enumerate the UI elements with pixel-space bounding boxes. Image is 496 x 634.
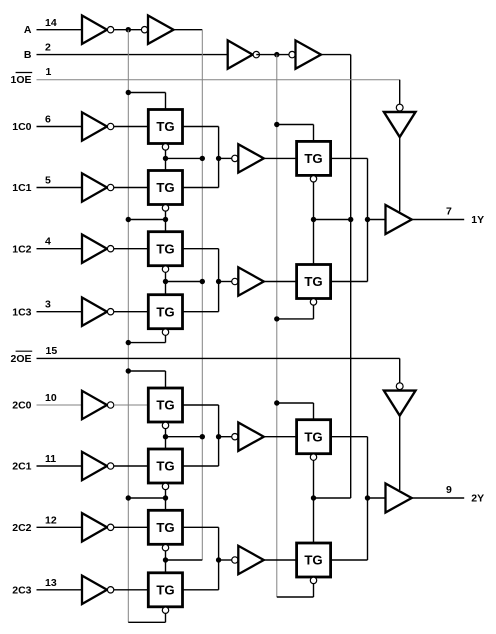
svg-text:13: 13 bbox=[45, 577, 57, 589]
wire 1OE horizontal bbox=[37, 79, 400, 81]
wire A buffer out bbox=[174, 29, 203, 31]
svg-text:5: 5 bbox=[45, 175, 51, 187]
wire 1C3 input bbox=[37, 311, 83, 313]
input B label (pin 2) bbox=[24, 42, 51, 62]
transmission gate TG 1C3 bbox=[148, 295, 182, 329]
node stage2 join 2 bbox=[365, 495, 370, 500]
svg-text:6: 6 bbox=[45, 114, 51, 126]
node B-bar tap 1 lower bbox=[274, 316, 279, 321]
buffer U2Y (output 2Y) bbox=[386, 484, 412, 513]
svg-text:15: 15 bbox=[46, 345, 58, 357]
wire 2C3 inverter to TG bbox=[114, 589, 149, 591]
input 2C1 label (pin 11) bbox=[12, 453, 56, 473]
svg-text:TG: TG bbox=[156, 583, 174, 598]
output 2Y label (pin 9) bbox=[446, 484, 484, 505]
wire control row 1 m01 bbox=[166, 157, 203, 159]
node TG 1C1 bubble junction bbox=[163, 217, 168, 222]
transmission gate TG 2C2 bbox=[148, 510, 182, 544]
svg-text:7: 7 bbox=[446, 206, 452, 218]
wire inverter 1M1 to TG bbox=[265, 157, 297, 159]
wire TG 1C0 bubble to TG 1C1 top bbox=[165, 150, 167, 170]
inverter U2C2 (2C2 input) bbox=[82, 513, 114, 541]
wire control row 1 ctl to B bbox=[314, 219, 351, 221]
svg-text:TG: TG bbox=[304, 553, 322, 568]
node stage1 join 1 m23 bbox=[216, 279, 221, 284]
svg-text:TG: TG bbox=[156, 241, 174, 256]
wire output 2Y bbox=[412, 497, 465, 499]
inverter U1M2 (stage2 1 lower) bbox=[232, 267, 264, 295]
wire A-bar vertical bus bbox=[127, 30, 129, 623]
input 2OE label (pin 15) bbox=[10, 345, 57, 365]
svg-text:B: B bbox=[24, 49, 32, 61]
svg-text:14: 14 bbox=[45, 17, 57, 29]
transmission gate TG 2C0 bbox=[148, 388, 182, 422]
svg-text:3: 3 bbox=[45, 299, 51, 311]
node A-bar tap 2 ctl bbox=[126, 495, 131, 500]
transmission gate TG 2lower stage2 bbox=[297, 543, 331, 577]
wire B vertical bus bbox=[350, 55, 352, 498]
node TG 1C0 bubble junction bbox=[163, 156, 168, 161]
wire 2C2 inverter to TG bbox=[114, 526, 149, 528]
node B tap 1 ctl bbox=[348, 217, 353, 222]
input 2C3 label (pin 13) bbox=[12, 577, 57, 597]
inverter U1A (A input) bbox=[82, 16, 114, 44]
wire join to inverter 2 m01 bbox=[219, 436, 232, 438]
wire TG 2C3 output bbox=[183, 560, 219, 590]
wire join to inverter 1 m01 bbox=[219, 157, 232, 159]
wire 1C2 input bbox=[37, 248, 83, 250]
wire B-bar vertical bus bbox=[276, 55, 278, 597]
transmission gate TG 2C3 bbox=[148, 573, 182, 607]
bubble below TG 1C1 bbox=[162, 205, 168, 211]
svg-text:2C3: 2C3 bbox=[12, 584, 31, 596]
wire TG 2C1 bubble to TG 2C2 top bbox=[165, 490, 167, 511]
wire buffer 2Y input bbox=[368, 497, 386, 499]
input 2C2 label (pin 12) bbox=[12, 514, 57, 534]
transmission gate TG 1upper stage2 bbox=[297, 141, 331, 175]
wire TG 2lower bubble to B-bar bbox=[277, 584, 314, 597]
wire TG 2upper bubble to TG 2lower top bbox=[313, 461, 315, 544]
wire 2C2 input bbox=[37, 526, 83, 528]
svg-text:2C1: 2C1 bbox=[12, 461, 31, 473]
svg-text:1OE: 1OE bbox=[10, 74, 31, 86]
wire join to inverter 1 m23 bbox=[219, 281, 232, 283]
svg-text:4: 4 bbox=[45, 236, 51, 248]
wire TG 1C1 bubble to TG 1C2 top bbox=[165, 211, 167, 231]
wire B-bar to TG 2upper top bbox=[277, 403, 314, 420]
transmission gate TG 1C2 bbox=[148, 232, 182, 266]
svg-text:9: 9 bbox=[446, 484, 452, 496]
node TG 2C2 bubble junction bbox=[163, 557, 168, 562]
transmission gate TG 2C1 bbox=[148, 449, 182, 483]
node B-bar tap 2 bbox=[274, 400, 279, 405]
node A-bar tap 2 top bbox=[126, 368, 131, 373]
bubble below TG 2C1 bbox=[162, 483, 168, 489]
wire 1C1 inverter to TG bbox=[114, 187, 149, 189]
wire TG 2C2 output bbox=[183, 527, 219, 560]
wire A input bbox=[37, 29, 83, 31]
node A-bar tap 1 top bbox=[126, 90, 131, 95]
input A label (pin 14) bbox=[24, 17, 57, 36]
wire enable to output buffer 1Y bbox=[399, 137, 401, 212]
inverter U2A (B input) bbox=[228, 40, 260, 68]
wire B buffer out bbox=[321, 54, 351, 56]
node B-bar junction bbox=[274, 52, 279, 57]
svg-text:TG: TG bbox=[156, 459, 174, 474]
wire TG 2C3 bubble down bbox=[128, 614, 165, 623]
inverter U1M1 (stage2 1 upper) bbox=[232, 144, 264, 172]
wire TG 1C0 output bbox=[183, 127, 219, 159]
input 1C0 label (pin 6) bbox=[12, 114, 51, 134]
node A-bar tap 1 bottom bbox=[126, 340, 131, 345]
svg-text:TG: TG bbox=[156, 520, 174, 535]
wire TG 2lower stage2 output bbox=[331, 498, 368, 560]
node TG 1upper bubble junction bbox=[311, 217, 316, 222]
inverter U2E (enable, output-enable 2OE) bbox=[384, 383, 416, 416]
input 1OE label (pin 1) bbox=[10, 66, 51, 86]
bubble below TG 2C3 bbox=[162, 607, 168, 613]
svg-text:2OE: 2OE bbox=[10, 353, 31, 365]
svg-text:TG: TG bbox=[156, 180, 174, 195]
wire 2C3 input bbox=[37, 589, 83, 591]
svg-text:1: 1 bbox=[46, 66, 52, 78]
buffer U1B (A true) bbox=[141, 16, 173, 44]
bubble below TG 1C0 bbox=[162, 144, 168, 150]
wire A to buffer bbox=[114, 29, 141, 31]
bubble below TG 2upper stage2 bbox=[310, 454, 316, 460]
node A tap 1 m23 bbox=[200, 279, 205, 284]
inverter U2M1 (stage2 2 upper) bbox=[232, 423, 264, 451]
transmission gate TG 2upper stage2 bbox=[297, 420, 331, 454]
wire control row 1 left ctl bbox=[128, 219, 165, 221]
wire 1C2 inverter to TG bbox=[114, 248, 149, 250]
node A-bar junction bbox=[126, 27, 131, 32]
wire TG 1C2 output bbox=[183, 249, 219, 282]
node stage1 join 2 m23 bbox=[216, 557, 221, 562]
input 1C2 label (pin 4) bbox=[12, 236, 51, 256]
svg-text:1Y: 1Y bbox=[471, 214, 484, 226]
wire TG 1lower bubble to B-bar bbox=[277, 305, 314, 319]
buffer U2B (B true) bbox=[289, 40, 321, 68]
wire 2OE horizontal bbox=[37, 357, 400, 359]
wire TG 2C0 output bbox=[183, 405, 219, 437]
wire inverter 1M2 to TG bbox=[265, 281, 297, 283]
inverter U1C1 (1C1 input) bbox=[82, 173, 114, 201]
wire enable to output buffer 2Y bbox=[399, 416, 401, 490]
input 2C0 label (pin 10) bbox=[12, 392, 57, 412]
transmission gate TG 1lower stage2 bbox=[297, 265, 331, 299]
inverter U2M2 (stage2 2 lower) bbox=[232, 546, 264, 574]
wire buffer 1Y input bbox=[368, 219, 386, 221]
svg-text:TG: TG bbox=[156, 119, 174, 134]
svg-text:TG: TG bbox=[304, 274, 322, 289]
inverter U2C0 (2C0 input) bbox=[82, 391, 114, 419]
svg-text:TG: TG bbox=[304, 151, 322, 166]
wire TG 1C1 output bbox=[183, 158, 219, 187]
wire join to inverter 2 m23 bbox=[219, 559, 232, 561]
inverter U1E (enable, output-enable 1OE) bbox=[384, 104, 416, 137]
bubble below TG 1upper stage2 bbox=[310, 176, 316, 182]
svg-text:1C1: 1C1 bbox=[12, 182, 31, 194]
wire TG 1upper stage2 output bbox=[331, 158, 368, 219]
wire TG 2upper stage2 output bbox=[331, 437, 368, 498]
wire B-bar to TG 1upper top bbox=[277, 125, 314, 142]
svg-text:1C3: 1C3 bbox=[12, 306, 31, 318]
svg-text:TG: TG bbox=[156, 304, 174, 319]
wire inverter 2M1 to TG bbox=[265, 436, 297, 438]
wire TG 1C2 bubble to TG 1C3 top bbox=[165, 273, 167, 295]
svg-text:2C0: 2C0 bbox=[12, 400, 31, 412]
node TG 1C2 bubble junction bbox=[163, 279, 168, 284]
wire control row 2 left ctl bbox=[128, 497, 165, 499]
node TG 2upper bubble junction bbox=[311, 495, 316, 500]
node A tap 1 m01 bbox=[200, 156, 205, 161]
wire TG 1upper bubble to TG 1lower top bbox=[313, 182, 315, 264]
svg-text:2: 2 bbox=[45, 42, 51, 54]
wire TG 1C3 output bbox=[183, 282, 219, 312]
inverter U1C0 (1C0 input) bbox=[82, 112, 114, 140]
svg-text:1C0: 1C0 bbox=[12, 121, 31, 133]
svg-text:11: 11 bbox=[45, 453, 56, 465]
bubble below TG 2lower stage2 bbox=[310, 577, 316, 583]
svg-text:TG: TG bbox=[156, 398, 174, 413]
wire A-bar to TG 1C0 top bbox=[128, 93, 165, 110]
node TG 2C0 bubble junction bbox=[163, 434, 168, 439]
wire B to buffer bbox=[256, 54, 289, 56]
wire 1C0 inverter to TG bbox=[114, 126, 149, 128]
bubble below TG 2C0 bbox=[162, 422, 168, 428]
inverter U2C3 (2C3 input) bbox=[82, 576, 114, 604]
wire 1OE to enable inverter bbox=[399, 80, 401, 104]
wire inverter 2M2 to TG bbox=[265, 559, 297, 561]
svg-text:10: 10 bbox=[45, 392, 57, 404]
wire control row 2 ctl to B bbox=[314, 497, 351, 499]
node stage1 join 2 m01 bbox=[216, 434, 221, 439]
bubble below TG 1lower stage2 bbox=[310, 299, 316, 305]
transmission gate TG 1C1 bbox=[148, 171, 182, 205]
bubble below TG 1C2 bbox=[162, 266, 168, 272]
bubble below TG 2C2 bbox=[162, 545, 168, 551]
wire TG 2C0 bubble to TG 2C1 top bbox=[165, 429, 167, 449]
wire output 1Y bbox=[412, 219, 465, 221]
wire B input bbox=[37, 54, 228, 56]
node A-bar tap 1 ctl bbox=[126, 217, 131, 222]
inverter U1C3 (1C3 input) bbox=[82, 298, 114, 326]
svg-text:A: A bbox=[24, 24, 32, 36]
node stage1 join 1 m01 bbox=[216, 156, 221, 161]
wire TG 1C3 bubble down bbox=[128, 336, 165, 343]
input 1C3 label (pin 3) bbox=[12, 299, 51, 319]
node A tap 2 m01 bbox=[200, 434, 205, 439]
bubble below TG 1C3 bbox=[162, 329, 168, 335]
wire TG 2C2 bubble to TG 2C3 top bbox=[165, 551, 167, 573]
wire TG 2C1 output bbox=[183, 437, 219, 466]
wire control row 2 m23 bbox=[166, 559, 203, 561]
svg-text:2Y: 2Y bbox=[471, 493, 484, 505]
svg-text:1C2: 1C2 bbox=[12, 243, 31, 255]
svg-text:12: 12 bbox=[45, 514, 57, 526]
wire A vertical bus bbox=[201, 30, 203, 560]
wire 2C1 input bbox=[37, 465, 83, 467]
svg-text:TG: TG bbox=[304, 429, 322, 444]
wire 2C0 inverter to TG bbox=[114, 404, 149, 406]
transmission gate TG 1C0 bbox=[148, 110, 182, 144]
svg-text:2C2: 2C2 bbox=[12, 522, 31, 534]
wire TG 1lower stage2 output bbox=[331, 220, 368, 282]
wire 2C1 inverter to TG bbox=[114, 465, 149, 467]
wire A-bar to TG 2C0 top bbox=[128, 371, 165, 388]
wire 2OE to enable inverter bbox=[399, 358, 401, 382]
buffer U1Y (output 1Y) bbox=[386, 205, 412, 234]
node B-bar tap 1 bbox=[274, 122, 279, 127]
node TG 2C1 bubble junction bbox=[163, 495, 168, 500]
wire 2C0 input bbox=[37, 404, 83, 406]
input 1C1 label (pin 5) bbox=[12, 175, 51, 195]
node stage2 join 1 bbox=[365, 217, 370, 222]
wire control row 1 m23 bbox=[166, 281, 203, 283]
wire control row 2 m01 bbox=[166, 436, 203, 438]
wire 1C1 input bbox=[37, 187, 83, 189]
wire 1C0 input bbox=[37, 126, 83, 128]
inverter U1C2 (1C2 input) bbox=[82, 235, 114, 263]
output 1Y label (pin 7) bbox=[446, 206, 484, 227]
inverter U2C1 (2C1 input) bbox=[82, 452, 114, 480]
wire 1C3 inverter to TG bbox=[114, 311, 149, 313]
